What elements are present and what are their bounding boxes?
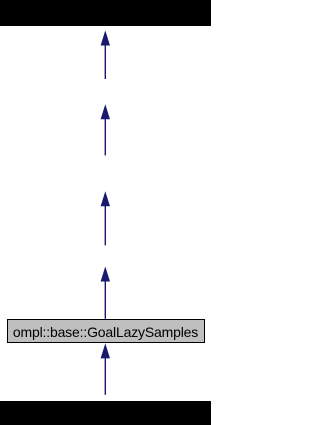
arrow 1 bbox=[101, 31, 110, 46]
arrow 4 bbox=[101, 267, 110, 282]
wire 2 bbox=[104, 119, 106, 155]
wire 1 bbox=[104, 44, 106, 79]
node box (bottom, cut off) bbox=[0, 401, 211, 425]
arrow 3 bbox=[101, 191, 110, 206]
inheritance arrows overlay bbox=[0, 0, 211, 425]
highlighted class node: ompl::base::GoalLazySamples bbox=[7, 319, 205, 344]
wire 5 bbox=[104, 358, 106, 395]
wire 4 bbox=[104, 281, 106, 319]
node box (top, cut off) bbox=[0, 0, 211, 26]
arrow 2 bbox=[101, 104, 110, 119]
wire 3 bbox=[104, 206, 106, 245]
arrow 5 bbox=[101, 343, 110, 358]
